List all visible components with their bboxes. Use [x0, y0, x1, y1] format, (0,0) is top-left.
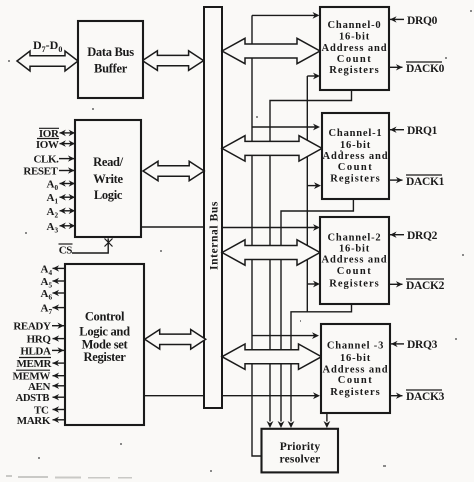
svg-text:A4: A4: [41, 263, 53, 277]
wire: channel-2 top stub: [221, 227, 315, 229]
svg-text:DRQ0: DRQ0: [407, 15, 438, 27]
svg-text:Count: Count: [337, 266, 373, 277]
bus arrow: internal bus to channel-1: [222, 136, 322, 161]
wire: channel-0 top stub: [252, 14, 315, 16]
svg-text:A6: A6: [41, 288, 53, 302]
bus arrow: control logic to internal bus: [145, 330, 206, 350]
svg-text:MARK: MARK: [17, 415, 51, 427]
svg-text:Read/: Read/: [93, 155, 124, 169]
svg-text:ADSTB: ADSTB: [16, 393, 50, 404]
svg-text:DACK2: DACK2: [406, 280, 445, 292]
svg-text:Priority: Priority: [280, 441, 321, 453]
signal arrow: DRQ3 in: [391, 343, 404, 345]
svg-text:A0: A0: [47, 179, 59, 193]
wire: channel-1 lower stub: [307, 185, 316, 187]
svg-text:Internal Bus: Internal Bus: [209, 201, 221, 270]
signal arrow: IOW: [60, 143, 76, 145]
wire: channel-2 lower stub: [307, 283, 315, 285]
block: channel-0 registers: [320, 7, 389, 90]
block: channel-2 registers: [320, 217, 389, 304]
wire: ch0 bottom jog to trunk line B into resolver: [270, 90, 352, 422]
signal arrow: READY in: [52, 325, 64, 327]
svg-text:DRQ3: DRQ3: [407, 339, 438, 351]
svg-text:Channel-0: Channel-0: [328, 20, 382, 31]
svg-text:Channel-2: Channel-2: [328, 232, 382, 243]
signal arrow: DACK0 out: [389, 66, 403, 68]
svg-text:A1: A1: [47, 192, 59, 206]
svg-text:Registers: Registers: [329, 65, 379, 76]
bus arrow: internal bus to channel-3: [222, 344, 322, 369]
signal arrow: A0: [60, 183, 76, 185]
svg-text:16-bit: 16-bit: [339, 31, 370, 42]
svg-text:Channel-1: Channel-1: [329, 128, 383, 139]
signal arrow: HLDA in: [52, 349, 64, 351]
signal arrow: HRQ out: [53, 338, 65, 340]
svg-text:AEN: AEN: [28, 381, 50, 393]
bus arrow: data bus buffer to internal bus: [142, 51, 203, 71]
wire: distribution vertical at x=307: [306, 76, 308, 312]
svg-text:HRQ: HRQ: [27, 334, 52, 346]
svg-text:CS: CS: [59, 245, 73, 257]
scan noise streak bottom-left: [6, 475, 132, 479]
svg-text:Address and: Address and: [322, 151, 388, 162]
signal arrow: DRQ1 in: [390, 129, 404, 131]
svg-text:Channel -3: Channel -3: [327, 341, 384, 352]
signal arrow: A5 out: [53, 280, 65, 282]
svg-text:IOW: IOW: [36, 139, 59, 151]
block: data bus buffer: [78, 21, 143, 98]
svg-text:16-bit: 16-bit: [340, 140, 371, 151]
signal arrow: DRQ2 in: [390, 234, 404, 236]
signal arrow: A1: [60, 196, 76, 198]
signal arrow: A6 out: [53, 292, 65, 294]
signal arrow: DACK1 out: [389, 179, 403, 181]
bus arrow: read/write logic to internal bus: [143, 161, 204, 181]
wire: channel-3 top stub: [252, 335, 314, 337]
wire: channel-3 bottom drop into resolver: [326, 413, 328, 422]
block: channel-3 registers: [321, 324, 390, 413]
bus arrow: internal bus to channel-2: [222, 240, 320, 265]
bus arrow: internal bus to channel-0: [222, 38, 320, 63]
signal arrow: A2: [60, 210, 76, 212]
block: read/write logic: [75, 120, 141, 237]
wire: ch2 bottom jog to trunk line D into resolver: [291, 304, 352, 422]
signal arrow: DACK3 out: [390, 395, 403, 397]
wire: ch1 bottom jog to trunk line C into resolver: [281, 199, 353, 422]
svg-text:DACK1: DACK1: [406, 176, 445, 188]
svg-text:Control: Control: [85, 310, 125, 324]
block: channel-1 registers: [322, 113, 389, 199]
bus arrow: D7-D0 to data bus buffer: [17, 51, 78, 71]
internal bus: [204, 7, 222, 408]
svg-text:DACK3: DACK3: [406, 391, 445, 403]
svg-text:A3: A3: [47, 221, 59, 235]
signal arrow: DACK2 out: [389, 283, 403, 285]
wire: channel-0 lower stub: [307, 75, 315, 77]
svg-text:DRQ2: DRQ2: [407, 230, 438, 242]
signal arrow: A3: [60, 225, 76, 227]
svg-text:Count: Count: [338, 375, 374, 386]
signal arrow: A7 out: [53, 307, 65, 309]
svg-text:MEMR: MEMR: [17, 358, 53, 370]
signal arrow: CLK: [59, 158, 75, 160]
svg-text:Write: Write: [93, 172, 123, 186]
svg-text:Registers: Registers: [330, 174, 380, 185]
block: priority resolver: [262, 429, 339, 473]
wire: CS select into read/write logic: [72, 238, 108, 253]
wire: control logic to channel-3 lower stub, left of bus: [144, 395, 204, 397]
signal arrow: ADSTB out: [53, 396, 65, 398]
signal arrow: MARK out: [53, 419, 65, 421]
svg-text:Logic: Logic: [94, 188, 123, 202]
svg-text:Register: Register: [83, 350, 126, 364]
svg-text:Address and: Address and: [321, 43, 387, 54]
signal arrow: DRQ0 in: [390, 18, 404, 20]
svg-text:READY: READY: [13, 321, 51, 333]
wire: channel-1 top stub: [252, 126, 315, 128]
signal arrow: TC out: [53, 409, 65, 411]
svg-text:16-bit: 16-bit: [339, 243, 370, 254]
svg-text:A7: A7: [41, 303, 53, 317]
signal arrow: MEMW out: [53, 375, 65, 377]
block: control logic and mode set register: [65, 264, 144, 425]
svg-text:Registers: Registers: [330, 387, 380, 398]
svg-text:Address and: Address and: [321, 255, 387, 266]
svg-text:DRQ1: DRQ1: [407, 125, 438, 137]
signal arrow: A4 out: [53, 267, 65, 269]
wire: read/write logic to internal bus lower wire: [142, 226, 204, 228]
svg-text:DACK0: DACK0: [406, 63, 445, 75]
wire: control logic to channel-3 lower stub, right of bus: [221, 395, 315, 397]
svg-text:CLK.: CLK.: [34, 154, 60, 166]
svg-text:RESET: RESET: [23, 165, 58, 177]
svg-text:Buffer: Buffer: [94, 62, 128, 76]
svg-text:Count: Count: [337, 54, 373, 65]
svg-text:A2: A2: [47, 206, 59, 220]
svg-text:HLDA: HLDA: [20, 345, 51, 357]
svg-text:resolver: resolver: [280, 454, 321, 466]
svg-text:16-bit: 16-bit: [340, 353, 371, 364]
signal arrow: RESET: [59, 170, 75, 172]
wire: trunk line A from ch0 top stub down to priority resolver left: [252, 15, 261, 456]
svg-text:Data Bus: Data Bus: [87, 45, 134, 59]
svg-text:Registers: Registers: [329, 279, 379, 290]
X mark on CS wire: [105, 239, 113, 247]
signal arrow: AEN out: [53, 385, 65, 387]
svg-text:D7-D0: D7-D0: [33, 38, 62, 54]
signal arrow: IOR: [60, 132, 76, 134]
svg-text:Count: Count: [338, 162, 374, 173]
signal arrow: MEMR out: [53, 362, 65, 364]
svg-text:Logic and: Logic and: [79, 325, 130, 339]
svg-text:Address and: Address and: [322, 364, 388, 375]
